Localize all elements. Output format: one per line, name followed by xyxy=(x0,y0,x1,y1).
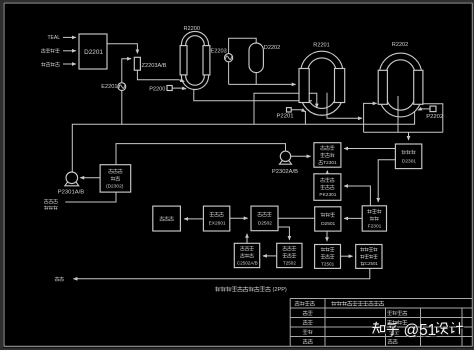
wire: Z2203A/B bottom to R2200 loop xyxy=(137,70,184,81)
svg-text:D2201: D2201 xyxy=(84,49,103,56)
pump P2201 xyxy=(287,108,292,112)
wire: R2201 bottom tap to recycle bus xyxy=(304,111,306,124)
wire: EX2601 to baler xyxy=(184,218,203,220)
wire: electron donor feed arrow xyxy=(63,50,76,52)
wire: D2501 to D2502 link xyxy=(278,217,315,219)
wire: P2202 into R2202 loop xyxy=(418,109,430,110)
svg-text:(2PP): (2PP) xyxy=(273,287,287,293)
title block: student id xyxy=(303,339,308,344)
svg-text:R2201: R2201 xyxy=(313,42,329,48)
knock-out drum D2202 xyxy=(249,43,263,73)
svg-text:P2301A/B: P2301A/B xyxy=(58,190,85,196)
wire: recycle branch riser x254 into R2201 xyxy=(254,93,317,124)
svg-text:C2501: C2501 xyxy=(365,261,378,266)
wire: E2203 line into R2201 left leg xyxy=(229,83,296,85)
wire: collection header to flash tank xyxy=(364,131,443,133)
pump P2301A/B xyxy=(65,182,79,186)
wire: D2202 top line through E2203 xyxy=(229,38,257,84)
svg-text:P2201: P2201 xyxy=(277,114,294,120)
svg-text:(D2302): (D2302) xyxy=(106,184,124,190)
wire: EX2601 to D2502 xyxy=(230,217,248,219)
wire: P2302A/B discharge to T2301 xyxy=(291,155,311,157)
watermark zhihu @51design xyxy=(374,323,464,340)
wire: D2302 to P2301A/B xyxy=(80,177,100,179)
bag filter F2301 xyxy=(362,206,386,231)
svg-text:E2201: E2201 xyxy=(101,84,117,90)
loop reactor R2200 xyxy=(181,31,208,89)
loop reactor R2202 xyxy=(379,53,421,117)
wire: propylene feed bus B xyxy=(116,144,286,165)
svg-text:TEAL: TEAL xyxy=(48,35,61,41)
pre-contact pot Z2203A/B xyxy=(134,57,140,70)
label battery-limit feed line2 xyxy=(44,206,49,210)
exchanger cooler E2203 xyxy=(225,54,233,62)
steamer wash tower T2501 xyxy=(315,245,341,269)
HP propylene wash tower T2301 xyxy=(314,143,341,168)
svg-text:D2301: D2301 xyxy=(402,158,416,164)
label battery limit xyxy=(55,277,59,281)
svg-text:T2502: T2502 xyxy=(283,260,296,265)
wire: F2301 to PK2301 xyxy=(344,186,370,206)
wire: D2301 lower outlet to F2301 xyxy=(378,160,395,202)
wire: R2200 bottom outlet to R2201 left leg xyxy=(194,89,312,101)
dryer wash tower T2502 xyxy=(277,243,302,267)
flash tank D2301 xyxy=(395,144,421,169)
title block: drawing name label xyxy=(295,301,300,306)
steamer D2501 xyxy=(315,207,341,231)
svg-text:T2301: T2301 xyxy=(323,160,337,166)
wire: C2502A/B to D2502 xyxy=(246,234,248,244)
loop reactor R2201 xyxy=(301,51,343,115)
steam offgas recovery compressor C2501 xyxy=(356,245,382,269)
svg-text:R2202: R2202 xyxy=(392,42,408,48)
wire: TEAL feed arrow xyxy=(63,36,76,38)
wire: T2502 to C2502A/B xyxy=(263,255,277,257)
svg-text:P2202: P2202 xyxy=(426,114,443,120)
svg-text:P2200: P2200 xyxy=(149,86,165,92)
dryer blower C2502A/B xyxy=(234,243,259,267)
wire: recycle bus A xyxy=(72,112,414,172)
title block: advisor xyxy=(387,320,392,325)
label main catalyst xyxy=(41,62,46,66)
label battery-limit feed line1 xyxy=(44,199,48,203)
wire: T2501 to C2501 xyxy=(341,255,353,257)
svg-text:PK2301: PK2301 xyxy=(319,192,336,198)
svg-text:R2200: R2200 xyxy=(184,26,200,32)
wire: PK2301 to T2301 xyxy=(326,171,328,174)
svg-text:C2502A/B: C2502A/B xyxy=(237,260,258,265)
exchanger cooler E2201 xyxy=(118,83,126,91)
title block: course name xyxy=(387,311,392,316)
svg-text:D2202: D2202 xyxy=(264,45,280,51)
propylene feed tank D2302 xyxy=(100,165,131,192)
dryer D2502 xyxy=(251,206,278,231)
svg-text:T2501: T2501 xyxy=(321,261,334,266)
wire: C2501 vent to battery limit xyxy=(74,268,370,278)
title block: school xyxy=(303,311,308,316)
wire: main catalyst feed arrow xyxy=(63,63,76,65)
baling machine xyxy=(153,206,181,231)
catalyst preparation tank D2201 xyxy=(79,34,107,69)
title block table xyxy=(290,298,472,300)
svg-text:D2502: D2502 xyxy=(258,220,272,226)
wire: drop into D2301 flash tank xyxy=(408,132,410,140)
wire: D2501 to T2501 xyxy=(326,231,328,241)
wire: R2202 right outlet xyxy=(422,104,443,133)
wire: R2202 dip tube xyxy=(397,96,399,132)
title block: class xyxy=(303,320,308,325)
svg-text:P2302A/B: P2302A/B xyxy=(272,169,298,175)
wire: battery-limit feed to D2302 xyxy=(65,192,116,202)
wire: P2200 to R2200 loop xyxy=(172,87,186,90)
wire: R2201 dip tube and transfer xyxy=(327,93,362,119)
title block: date xyxy=(389,330,394,335)
pump P2302A/B xyxy=(280,161,292,165)
title block: drawing name value xyxy=(331,301,336,306)
svg-text:@51: @51 xyxy=(404,322,437,339)
drawing title xyxy=(215,287,221,292)
title block: figure number xyxy=(388,339,393,344)
pump P2202 xyxy=(430,106,436,112)
svg-text:E2203: E2203 xyxy=(211,49,227,55)
wire: D2301 to T2301 xyxy=(344,148,395,150)
wire: E2201 riser to Z2203A/B xyxy=(122,59,131,125)
outer margin xyxy=(0,0,474,2)
wire: D2201 outlet to Z2203A/B top xyxy=(107,44,137,54)
wire: transfer riser into R2202 left leg xyxy=(364,103,377,132)
wire: D2202 bottom tee xyxy=(255,73,257,85)
svg-text:Z2203A/B: Z2203A/B xyxy=(142,63,167,69)
title block: name xyxy=(303,330,308,335)
extruder EX2601 xyxy=(203,206,229,231)
recycle gas compressor PK2301 xyxy=(314,174,341,201)
wire: D2502 to T2502 xyxy=(278,227,289,240)
wire: P2201 into R2201 loop xyxy=(291,110,305,112)
wire: F2301 to D2501 xyxy=(344,217,362,219)
svg-text:EX2601: EX2601 xyxy=(209,221,226,227)
pump P2200 xyxy=(167,86,172,91)
svg-text:D2501: D2501 xyxy=(321,221,335,227)
label electron donor xyxy=(41,48,45,52)
svg-text:F2301: F2301 xyxy=(368,224,382,230)
